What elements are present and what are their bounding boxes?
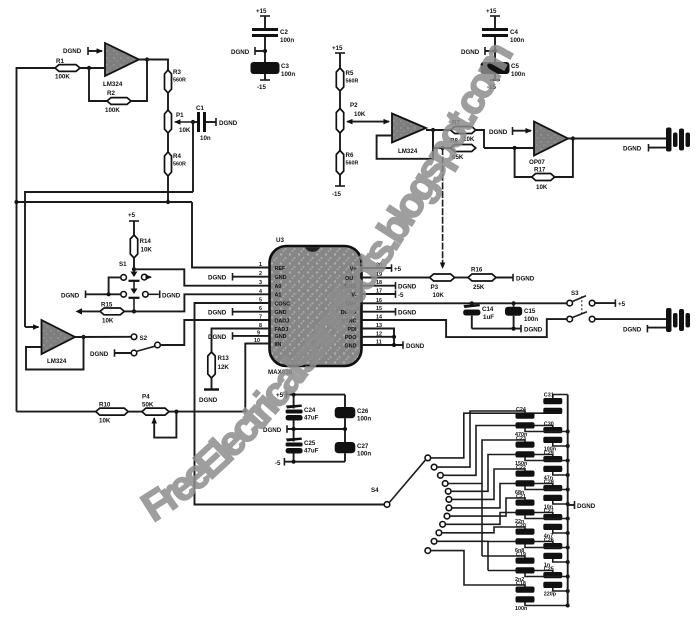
- svg-text:R5: R5: [346, 70, 354, 77]
- connector J1 output jack: [666, 128, 690, 152]
- svg-text:DGND: DGND: [524, 327, 543, 334]
- wire S2 common to DADJ: [160, 320, 269, 345]
- fan contact c11: [431, 539, 437, 545]
- svg-text:+15: +15: [486, 8, 497, 15]
- wire: [339, 133, 341, 151]
- svg-text:100n: 100n: [515, 606, 527, 612]
- wire C20 top feed: [488, 571, 553, 574]
- svg-text:50K: 50K: [142, 402, 154, 409]
- IC U3 body: [268, 237, 362, 376]
- wire U3 output to jack J1: [568, 138, 666, 140]
- wire horizontal y202: [17, 201, 193, 203]
- wire c6 to C23: [452, 469, 525, 499]
- node U2 output: [431, 128, 435, 132]
- svg-text:10K: 10K: [433, 292, 445, 299]
- fan contact c5: [445, 489, 451, 495]
- svg-text:DGND: DGND: [199, 397, 218, 404]
- wire to pin A0: [134, 269, 270, 285]
- svg-text:1uF: 1uF: [483, 314, 494, 321]
- svg-text:+15: +15: [332, 45, 343, 52]
- svg-text:R2: R2: [107, 90, 115, 97]
- wire to P3 wiper: [442, 148, 444, 268]
- svg-text:FADJ: FADJ: [275, 327, 289, 333]
- node DGND tap: [263, 49, 267, 53]
- wire c8 to C25: [450, 498, 525, 516]
- wire P2 wiper to U2: [352, 121, 389, 123]
- svg-text:100K: 100K: [55, 74, 70, 81]
- node DGND (S1 right): [148, 291, 181, 300]
- svg-text:3: 3: [259, 280, 262, 286]
- wire R8 branch: [433, 130, 451, 148]
- wire chain bottom: [167, 176, 169, 202]
- svg-text:12K: 12K: [218, 364, 230, 371]
- wire node B to U3: [484, 147, 534, 149]
- capacitor C18 100n: [515, 581, 570, 612]
- svg-text:DGND: DGND: [63, 48, 82, 55]
- node PDO junction: [392, 335, 396, 339]
- node P1 wiper: [191, 120, 195, 124]
- wire c12 to C18: [431, 551, 525, 588]
- svg-text:25K: 25K: [473, 284, 485, 291]
- svg-text:C27: C27: [357, 443, 369, 450]
- svg-text:10K: 10K: [102, 318, 114, 325]
- svg-text:+5: +5: [128, 212, 136, 219]
- resistor R2 100K: [105, 90, 131, 114]
- svg-text:560R: 560R: [173, 162, 186, 168]
- svg-text:10K: 10K: [536, 184, 548, 191]
- svg-text:C20: C20: [516, 523, 526, 529]
- wire left column: [293, 395, 295, 409]
- svg-text:C19: C19: [516, 552, 526, 558]
- svg-text:R4: R4: [173, 153, 181, 160]
- capacitor C21 22n: [515, 494, 570, 525]
- svg-text:R3: R3: [173, 69, 181, 76]
- capacitor C1 10n: [193, 105, 211, 142]
- svg-text:P3: P3: [431, 284, 439, 291]
- node feedback tap: [513, 146, 517, 150]
- fan contact c8: [444, 513, 450, 519]
- node R8/P3 tap: [441, 146, 445, 150]
- svg-text:C24: C24: [304, 407, 316, 414]
- svg-text:100n: 100n: [280, 37, 294, 44]
- svg-text:C4: C4: [510, 29, 518, 36]
- wire: [494, 37, 496, 62]
- svg-text:R13: R13: [218, 355, 230, 362]
- wire pin10 IIN from P4: [176, 344, 269, 412]
- fan contact c10: [436, 530, 442, 536]
- svg-text:100n: 100n: [357, 451, 371, 458]
- svg-text:C26: C26: [544, 538, 554, 544]
- svg-text:DGND: DGND: [577, 503, 596, 510]
- resistor R14 10K: [130, 235, 152, 258]
- wire rail to R10: [17, 411, 96, 413]
- wire pin9 GND to DGND: [208, 332, 270, 341]
- resistor R17 10K: [532, 167, 555, 192]
- svg-text:C27: C27: [544, 509, 554, 515]
- node DGND (op-amp U1 + input): [63, 47, 102, 55]
- svg-text:DADJ: DADJ: [275, 318, 290, 324]
- power +15 (C4 stack): [486, 8, 500, 28]
- wire pin18 GND to DGND: [362, 282, 417, 291]
- svg-text:DGND: DGND: [208, 310, 227, 317]
- svg-text:S3: S3: [571, 290, 579, 297]
- wire pin6 GND to DGND: [208, 308, 270, 317]
- resistor R15 10K: [76, 302, 135, 325]
- resistor R7 10K: [451, 120, 476, 144]
- svg-text:A1: A1: [275, 293, 282, 299]
- svg-text:100K: 100K: [105, 107, 120, 114]
- svg-text:C24: C24: [516, 407, 526, 413]
- capacitor C23 150n: [515, 436, 570, 467]
- wire pin13 PDI: [362, 329, 395, 346]
- resistor R1 100K: [55, 58, 80, 81]
- capacitor C19 2n2: [515, 552, 570, 583]
- wire U1 output to divider chain: [139, 60, 168, 71]
- capacitor C5 100n: [481, 62, 526, 78]
- node U4 output: [81, 335, 85, 339]
- wire rail to U4 + input: [25, 326, 39, 328]
- node DGND (bank rail): [568, 501, 596, 510]
- connector J2 sync jack: [666, 308, 690, 332]
- node S1 left junction: [107, 292, 111, 296]
- capacitor C30 100n: [543, 422, 569, 453]
- svg-text:R1: R1: [56, 58, 64, 65]
- resistor R13 12K: [208, 329, 270, 390]
- fan contact c3: [438, 473, 444, 479]
- node R15/S1 junction: [132, 309, 136, 313]
- wire: [133, 258, 135, 269]
- svg-text:C14: C14: [482, 306, 494, 313]
- switch S4: [371, 460, 425, 507]
- node chain bottom: [166, 200, 170, 204]
- wire S3 row1 to +5: [595, 299, 626, 308]
- svg-text:100n: 100n: [357, 416, 371, 423]
- wire pin16 DV+ to S3: [362, 302, 567, 304]
- wire R10 to P4: [128, 411, 142, 413]
- svg-text:GND: GND: [275, 310, 287, 316]
- node DGND (J1 sleeve): [623, 144, 666, 153]
- wire c5 to C28: [451, 455, 553, 492]
- svg-text:100n: 100n: [510, 37, 524, 44]
- svg-text:C25: C25: [304, 440, 316, 447]
- capacitor C15 100n: [505, 301, 538, 328]
- resistor R6 560R: [336, 151, 358, 176]
- wire c7 to C26: [452, 484, 553, 508]
- fan contact c4: [442, 481, 448, 487]
- svg-text:DGND: DGND: [162, 292, 181, 299]
- wire S3 row2 to jack J2: [595, 318, 666, 320]
- node DGND (U3 + input): [489, 127, 531, 136]
- power -15: [332, 175, 345, 198]
- svg-text:DGND: DGND: [623, 146, 642, 153]
- resistor R8 65K: [450, 138, 476, 162]
- svg-text:DGND: DGND: [208, 334, 227, 341]
- capacitor C26 100n: [335, 395, 372, 442]
- svg-text:R10: R10: [99, 402, 111, 409]
- svg-text:IIN: IIN: [275, 342, 282, 348]
- svg-text:A0: A0: [275, 284, 282, 290]
- capacitor C28 10n: [543, 480, 569, 511]
- wire R16 to DGND: [496, 274, 535, 283]
- wire c4 to C21: [448, 440, 525, 484]
- op-amp U1 LM324: [103, 43, 139, 88]
- svg-text:P2: P2: [350, 102, 358, 109]
- potentiometer P4 50K: [142, 394, 177, 438]
- svg-text:47uF: 47uF: [304, 448, 319, 455]
- capacitor C29 47n: [543, 451, 569, 482]
- svg-text:C31: C31: [544, 393, 554, 399]
- svg-text:C28: C28: [544, 480, 554, 486]
- svg-text:DGND: DGND: [208, 275, 227, 282]
- wire pin15 DGND to DGND: [362, 308, 417, 317]
- svg-text:560R: 560R: [346, 161, 359, 167]
- wire U2 feedback loop: [377, 130, 433, 159]
- pin numbers right: [376, 263, 382, 346]
- svg-text:P4: P4: [142, 394, 150, 401]
- svg-text:10K: 10K: [354, 111, 366, 118]
- svg-text:220p: 220p: [544, 592, 557, 598]
- power +5: [276, 391, 345, 399]
- svg-text:560R: 560R: [173, 78, 186, 84]
- wire horizontal y193: [25, 192, 193, 327]
- svg-text:DGND: DGND: [489, 129, 508, 136]
- resistor R3 560R: [165, 69, 186, 93]
- wire C21b top feed: [482, 556, 525, 559]
- wire U2 output: [426, 129, 451, 131]
- svg-text:C15: C15: [524, 308, 536, 315]
- capacitor C26 1n: [543, 538, 569, 569]
- svg-text:10n: 10n: [200, 135, 211, 142]
- capacitor C3 100n: [251, 62, 296, 78]
- svg-text:REF: REF: [275, 266, 286, 272]
- wire pin11 GND to DGND: [362, 341, 425, 350]
- capacitor C31: [543, 393, 562, 415]
- wire: [167, 93, 169, 110]
- svg-text:C23: C23: [516, 436, 526, 442]
- wire P3 to R16: [455, 277, 468, 279]
- capacitor C24 470n: [515, 407, 570, 438]
- capacitor C14 1uF: [463, 301, 494, 328]
- potentiometer P3 10K: [430, 274, 455, 299]
- wire c2 to C19: [437, 411, 525, 467]
- wire P4 to IIN riser: [169, 411, 176, 413]
- fan contact c12: [425, 548, 431, 554]
- resistor R10 10K: [96, 402, 128, 425]
- wire R7 right: [476, 130, 484, 148]
- power +15: [332, 45, 345, 68]
- svg-text:-15: -15: [332, 191, 342, 198]
- wire up to S1 row1: [109, 277, 121, 294]
- resistor R16 25K: [468, 267, 496, 292]
- wire R1 to inverting input: [80, 67, 105, 69]
- fan contact c2: [431, 464, 437, 470]
- svg-text:R17: R17: [534, 167, 546, 174]
- wire c10 to C27b: [442, 527, 525, 533]
- svg-text:C22: C22: [516, 465, 526, 471]
- svg-text:C3: C3: [281, 63, 289, 70]
- svg-text:OP07: OP07: [529, 159, 545, 166]
- svg-text:4: 4: [259, 289, 262, 295]
- pin numbers left: [254, 262, 262, 344]
- wire pin17 V- to -5: [362, 290, 405, 299]
- svg-text:10K: 10K: [99, 418, 111, 425]
- capacitor C2 100n: [252, 29, 294, 44]
- wire to pin A1: [134, 294, 270, 311]
- svg-text:GND: GND: [275, 334, 287, 340]
- capacitor C27 100n: [335, 442, 372, 462]
- node R14/S1 junction: [132, 267, 136, 271]
- wire pin20 V+ to +5: [362, 264, 402, 273]
- svg-text:R16: R16: [471, 267, 483, 274]
- wire bank ground rail: [567, 395, 569, 606]
- potentiometer P1 10K: [165, 110, 194, 134]
- svg-text:-5: -5: [398, 292, 404, 299]
- svg-text:100n: 100n: [524, 316, 538, 323]
- svg-text:R6: R6: [346, 152, 354, 159]
- wire U4 output to S2: [75, 336, 131, 338]
- svg-text:R15: R15: [101, 302, 113, 309]
- resistor R4 560R: [165, 152, 186, 176]
- op-amp U3 OP07: [529, 122, 568, 167]
- node DGND label: [231, 47, 265, 56]
- fan contact c6: [446, 497, 452, 503]
- node DGND label: [461, 47, 495, 56]
- wire R2 feedback loop: [89, 68, 107, 101]
- wire C14/C15 ground rail: [472, 325, 543, 334]
- svg-text:C29: C29: [544, 451, 554, 457]
- svg-text:DGND: DGND: [398, 310, 417, 317]
- svg-text:560R: 560R: [346, 79, 359, 85]
- svg-text:DGND: DGND: [61, 292, 80, 299]
- switch S1: [119, 261, 151, 311]
- capacitor C24 47uF: [286, 405, 319, 442]
- node DGND (S1 left): [61, 291, 121, 300]
- svg-text:C25: C25: [544, 567, 554, 573]
- capacitor C4 100n: [482, 29, 524, 44]
- svg-text:C1: C1: [196, 105, 204, 112]
- svg-text:C2: C2: [280, 29, 288, 36]
- svg-text:10K: 10K: [141, 247, 153, 254]
- svg-text:S2: S2: [140, 335, 148, 342]
- capacitor C25 220p: [543, 567, 569, 598]
- node DGND (S2): [90, 349, 131, 358]
- resistor R5 560R: [336, 68, 358, 91]
- wire pin19 OUT to P3: [362, 277, 430, 279]
- op-amp U4 LM324: [42, 320, 76, 365]
- switch S2: [131, 334, 160, 356]
- svg-text:C21: C21: [516, 494, 526, 500]
- op-amp U2 LM324: [392, 114, 426, 156]
- capacitor C22 68n: [515, 465, 570, 496]
- svg-text:S1: S1: [119, 261, 127, 268]
- wire: [264, 37, 266, 62]
- svg-text:C30: C30: [544, 422, 554, 428]
- wire c11 to C22: [437, 541, 553, 544]
- power +15 (C2 stack): [256, 8, 270, 28]
- svg-text:P1: P1: [176, 112, 184, 119]
- node DGND (J2 sleeve): [623, 325, 666, 334]
- svg-text:+5: +5: [618, 301, 626, 308]
- potentiometer P2 10K: [336, 102, 366, 133]
- wire pin12 PDO: [362, 336, 395, 338]
- svg-text:100n: 100n: [281, 71, 295, 78]
- svg-text:-5: -5: [275, 460, 281, 467]
- wire: [167, 133, 169, 152]
- node junction R1/R2: [87, 66, 91, 70]
- capacitor C20 6n8: [515, 523, 570, 554]
- svg-text:C26: C26: [357, 408, 369, 415]
- power +5: [128, 212, 139, 235]
- wire feedback down: [515, 148, 532, 177]
- wire: [339, 91, 341, 109]
- svg-text:COSC: COSC: [275, 301, 291, 307]
- svg-text:LM324: LM324: [47, 358, 67, 365]
- capacitor C25 47uF: [286, 438, 319, 462]
- svg-text:DGND: DGND: [231, 49, 250, 56]
- wire left rail outer: [17, 68, 56, 412]
- svg-text:GND: GND: [345, 343, 357, 349]
- svg-text:47uF: 47uF: [304, 415, 319, 422]
- switch S3: [567, 290, 595, 322]
- node U3 output: [571, 136, 575, 140]
- power -15: [487, 74, 500, 91]
- fan contact c9: [440, 522, 446, 528]
- svg-text:+15: +15: [256, 8, 267, 15]
- power -5: [275, 458, 345, 467]
- node DGND (mid rail): [263, 425, 347, 434]
- wire pin5 COSC to S4: [195, 303, 384, 505]
- node op-amp U1 output: [145, 57, 149, 61]
- capacitor C27 4n7: [543, 509, 569, 540]
- svg-text:-15: -15: [257, 84, 267, 91]
- wire C31 to rail top: [553, 395, 568, 399]
- svg-text:LM324: LM324: [103, 81, 123, 88]
- svg-text:R14: R14: [140, 238, 152, 245]
- wire c1 to C31: [431, 412, 553, 458]
- svg-text:C18: C18: [516, 581, 526, 587]
- wire feedback up to output: [555, 139, 573, 178]
- node rail tap: [14, 200, 18, 204]
- wire pin1 REF: [192, 202, 270, 268]
- wire c9 to C24: [446, 513, 553, 525]
- svg-text:S4: S4: [371, 487, 379, 494]
- svg-text:U3: U3: [276, 237, 284, 244]
- wire pin14 SYNC to S3 row2: [362, 319, 567, 337]
- node DGND tap: [493, 49, 497, 53]
- svg-text:10K: 10K: [179, 127, 191, 134]
- svg-text:DGND: DGND: [398, 284, 417, 291]
- node P4 output junction: [174, 410, 178, 414]
- wire C1 to DGND: [206, 118, 238, 127]
- svg-text:DGND: DGND: [219, 120, 238, 127]
- ground DGND (R13): [199, 390, 219, 405]
- wire R2 to output: [131, 60, 147, 102]
- wire U4 feedback loop: [26, 337, 84, 370]
- svg-text:DGND: DGND: [516, 276, 535, 283]
- svg-text:GND: GND: [275, 275, 287, 281]
- fan contact c7: [446, 505, 452, 511]
- watermark: [133, 4, 540, 530]
- svg-text:DGND: DGND: [406, 343, 425, 350]
- wire pin2 GND to DGND: [208, 273, 270, 282]
- fan contact c1: [425, 455, 431, 461]
- svg-text:DGND: DGND: [623, 326, 642, 333]
- svg-text:DGND: DGND: [90, 351, 109, 358]
- wire REF feed vertical: [192, 122, 194, 192]
- svg-text:7: 7: [259, 315, 262, 321]
- wire c3 to C30: [443, 426, 553, 476]
- power -15: [257, 74, 270, 91]
